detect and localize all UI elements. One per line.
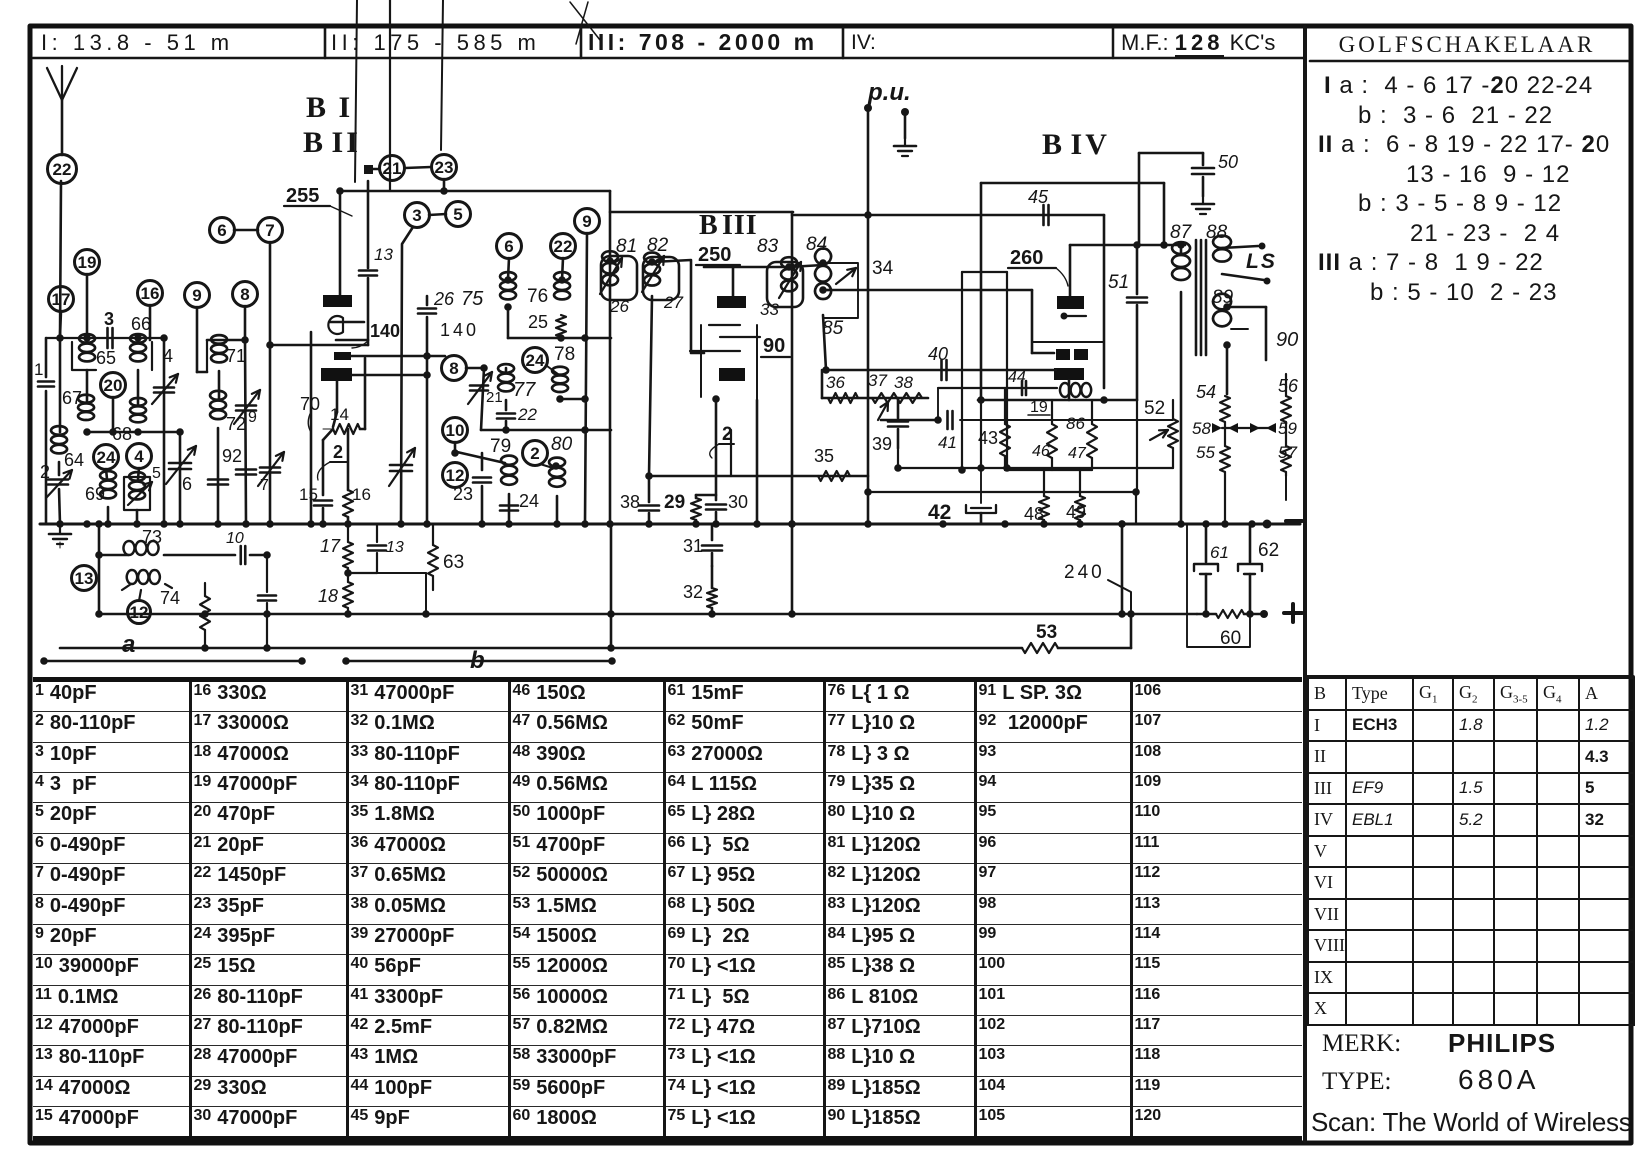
- screen box around padder coil: [124, 477, 150, 510]
- svg-text:6: 6: [504, 237, 513, 256]
- wire contact 17 down: [60, 311, 61, 336]
- svg-text:17: 17: [320, 536, 341, 556]
- wire x=1286 tail: [1285, 476, 1287, 500]
- capacitor 24 plain: [500, 504, 518, 507]
- svg-text:20: 20: [104, 376, 123, 395]
- coil 64 winding: [51, 426, 67, 453]
- wire IF rail y=212: [610, 211, 793, 214]
- svg-text:16: 16: [141, 284, 160, 303]
- wire x=60 down from node: [59, 338, 62, 432]
- svg-text:140: 140: [440, 320, 479, 340]
- wire x=99 riser: [98, 524, 101, 614]
- svg-text:74: 74: [160, 588, 180, 608]
- capacitor 26 branch: [426, 296, 429, 305]
- capacitor 41: [946, 411, 949, 429]
- wire link 21-23: [405, 167, 431, 168]
- resistor 60: [1216, 610, 1244, 618]
- svg-text:54: 54: [1196, 382, 1216, 402]
- wire x=981 to capacitor 42: [980, 468, 982, 503]
- secondary coil 88: [1213, 236, 1231, 262]
- wire contact 16 down: [149, 305, 152, 340]
- wire y=573 to riser: [377, 572, 426, 574]
- svg-text:38: 38: [620, 492, 640, 512]
- coil 66 winding: [130, 334, 146, 361]
- wire below capacitor 1 to bus: [45, 391, 48, 524]
- plus terminal: [1284, 604, 1302, 622]
- svg-text:9: 9: [582, 212, 591, 231]
- svg-text:69: 69: [85, 484, 105, 504]
- svg-text:62: 62: [1258, 540, 1279, 561]
- switch contact 2: [523, 441, 548, 466]
- svg-text:49: 49: [1066, 502, 1086, 522]
- svg-text:12: 12: [130, 603, 149, 622]
- wire resistor14 right leg: [360, 428, 365, 431]
- svg-text:58: 58: [1192, 419, 1211, 438]
- wire feedback branch x=962: [961, 272, 963, 470]
- wire contact 9 down: [196, 307, 199, 372]
- svg-text:80: 80: [551, 434, 573, 455]
- wire coil 75 to y=338: [507, 308, 510, 338]
- capacitor 7 trimmer: [236, 468, 256, 471]
- wire rail y=388: [938, 387, 1057, 389]
- resistor 25: [556, 315, 566, 337]
- primary coil 87: [1180, 245, 1183, 253]
- coil 75 winding: [500, 272, 516, 299]
- wire x=1164 drop: [1163, 183, 1166, 245]
- wire contact 8 down: [244, 306, 247, 339]
- svg-text:25: 25: [528, 312, 548, 332]
- connector marks 58-59: [1212, 423, 1238, 433]
- svg-text:1: 1: [34, 360, 43, 379]
- wire coil 74 to contact 12: [122, 584, 131, 590]
- trimmer box coil 84: [823, 263, 858, 318]
- wire top of coil 71: [207, 339, 245, 342]
- switch contact 17: [49, 287, 74, 312]
- wire contact 9b down: [585, 233, 587, 523]
- svg-text:78: 78: [554, 344, 575, 365]
- wire envelope right leg: [756, 400, 759, 524]
- capacitor 30: [706, 503, 726, 506]
- capacitor 50: [1192, 167, 1214, 170]
- svg-text:86: 86: [1066, 414, 1085, 433]
- wire x=1137 lower: [1136, 400, 1138, 492]
- coil 77 winding: [505, 368, 508, 372]
- wire coil 83-84 tops: [789, 265, 823, 267]
- svg-text:81: 81: [616, 236, 637, 257]
- svg-text:32: 32: [683, 582, 703, 602]
- resistor 52: [1172, 400, 1174, 419]
- resistor 18: [347, 568, 349, 582]
- svg-text:47: 47: [1068, 445, 1087, 462]
- wire feedback x=1007: [1006, 272, 1008, 468]
- svg-text:90: 90: [1276, 329, 1298, 351]
- arrow into 52: [1150, 430, 1168, 440]
- svg-text:23: 23: [453, 484, 473, 504]
- switch contact 5: [446, 202, 471, 227]
- svg-text:5: 5: [152, 465, 161, 482]
- wire anode feed B III: [732, 267, 735, 296]
- svg-text:90: 90: [763, 335, 785, 357]
- svg-text:79: 79: [490, 436, 511, 457]
- svg-text:14: 14: [330, 405, 349, 424]
- svg-text:7: 7: [260, 477, 269, 494]
- wire 58-59 link: [1222, 427, 1268, 429]
- svg-text:42: 42: [928, 501, 951, 524]
- switch contact 22: [48, 155, 77, 184]
- resistor 35: [818, 471, 850, 481]
- coil 79 winding: [501, 456, 517, 485]
- svg-text:46: 46: [1032, 443, 1050, 460]
- pointer 140: [352, 341, 368, 348]
- svg-text:45: 45: [1028, 187, 1049, 207]
- resistor 43: [1004, 388, 1006, 424]
- wire anode rail y=267: [704, 266, 792, 269]
- pointer 255 to wire: [330, 206, 352, 216]
- capacitor 23: [481, 453, 484, 470]
- scan crease line right: [441, 0, 443, 150]
- switch contact 10: [443, 418, 468, 443]
- wire x=219 between coils: [218, 371, 221, 399]
- svg-text:27: 27: [663, 293, 683, 312]
- coil 73: [99, 554, 128, 557]
- wire choke rail y=400: [978, 399, 1137, 402]
- field coil 89: [1213, 294, 1231, 327]
- wire link 6-7: [234, 229, 258, 232]
- capacitor 40: [940, 360, 943, 380]
- wiper line y=420: [881, 419, 938, 422]
- choke coil 19: [1060, 383, 1091, 397]
- wire contact 22 down to input node: [60, 181, 61, 338]
- svg-text:60: 60: [1220, 628, 1241, 649]
- tube B III envelope: [701, 325, 757, 400]
- wire feedback top: [962, 271, 1007, 273]
- wire x=1139 drop: [1138, 153, 1141, 245]
- wire grid drop x=1032: [1031, 290, 1034, 353]
- resistor 55: [1224, 422, 1226, 446]
- switch contact 13: [72, 566, 97, 591]
- dimension line b: [346, 660, 612, 663]
- variable capacitor 9 padder: [236, 404, 256, 407]
- wire speaker bottom: [1222, 274, 1264, 280]
- svg-text:67: 67: [62, 388, 82, 408]
- wire capacitor 10 right: [250, 554, 267, 557]
- svg-text:17: 17: [52, 290, 71, 309]
- wire left AVC stub: [59, 542, 61, 548]
- bus 2 supply rail: [99, 613, 1197, 616]
- switch contact 3: [405, 203, 430, 228]
- wire padder coil to bus: [136, 510, 139, 524]
- svg-text:19: 19: [1030, 399, 1048, 416]
- ground below capacitor 50: [1202, 177, 1205, 196]
- capacitor 45: [1042, 205, 1045, 225]
- wire resistor14 left leg down: [323, 429, 333, 440]
- right panel divider: [1303, 27, 1307, 1141]
- trimmer arrow coil 26: [600, 258, 622, 294]
- svg-text:44: 44: [1008, 369, 1026, 386]
- svg-text:7: 7: [265, 221, 274, 240]
- wire x=938 riser: [937, 388, 939, 420]
- svg-text:4: 4: [134, 447, 144, 466]
- p.u. terminal dot: [864, 104, 872, 112]
- wire x=731 cathode branch: [730, 430, 732, 476]
- svg-text:240: 240: [1064, 562, 1105, 583]
- header separator III/IV: [842, 28, 845, 58]
- svg-text:B IV: B IV: [1042, 128, 1110, 161]
- header separator IV/MF: [1112, 28, 1115, 58]
- pot arrow 37: [878, 402, 888, 420]
- tube B I/II grid dashes: [330, 321, 364, 324]
- wire rail y=430: [481, 429, 611, 432]
- coil 71 winding: [211, 335, 227, 362]
- tube B III anode bar: [717, 296, 746, 308]
- svg-text:73: 73: [142, 527, 162, 547]
- wire x=246 branch: [245, 339, 246, 524]
- coil 78 winding: [552, 367, 568, 392]
- wire x=138 between coils: [137, 370, 140, 405]
- wire p.u. line x=868: [867, 108, 870, 524]
- switch contact 4: [127, 444, 152, 469]
- capacitor 42: [966, 505, 996, 513]
- resistor 48: [1043, 470, 1045, 496]
- wire coil27 top feed: [652, 260, 704, 353]
- svg-text:76: 76: [527, 286, 548, 307]
- tube B I/II anode bar: [323, 295, 352, 307]
- svg-text:8: 8: [449, 359, 458, 378]
- wire coil 84 bottom down: [823, 315, 826, 370]
- coil 67 winding: [78, 395, 94, 420]
- svg-text:57: 57: [1278, 443, 1297, 462]
- switch contact 19: [75, 250, 100, 275]
- svg-text:38: 38: [894, 373, 913, 392]
- svg-text:61: 61: [1210, 543, 1229, 562]
- wire contact 8b stub: [466, 367, 484, 370]
- svg-text:10: 10: [446, 421, 465, 440]
- svg-text:33: 33: [760, 300, 779, 319]
- capacitor 12 bottom: [258, 594, 276, 597]
- resistor 49: [1079, 470, 1081, 496]
- capacitor 51: [1136, 245, 1139, 294]
- wire mid grid y=356: [351, 355, 445, 358]
- switch contact 24 second: [523, 348, 548, 373]
- svg-text:22: 22: [53, 160, 72, 179]
- p.u. ground: [904, 138, 906, 146]
- wire coil 89 bottom: [1223, 341, 1231, 349]
- wire contact 23 down: [443, 179, 446, 191]
- wire coil 73 to capacitor 10: [164, 554, 235, 557]
- svg-text:30: 30: [728, 492, 748, 512]
- switch contact 16: [138, 281, 163, 306]
- wire contact 12 stem: [139, 590, 141, 601]
- coil 27 IF can: [643, 257, 679, 300]
- wire grid rail y=290: [828, 289, 1032, 292]
- svg-text:55: 55: [1196, 443, 1215, 462]
- dimension line a: [44, 660, 302, 663]
- coil 68 winding: [130, 398, 146, 422]
- variable capacitor 6: [169, 462, 191, 465]
- wire x=981 lower: [980, 400, 982, 468]
- capacitor 50 branch: [1139, 152, 1203, 155]
- wire cathode x=311: [310, 332, 313, 524]
- p.u. second terminal: [901, 108, 909, 116]
- svg-text:3: 3: [412, 206, 421, 225]
- wire B IV cathode down: [1068, 380, 1071, 400]
- wire y=420 to resistor 52: [960, 419, 1173, 421]
- svg-text:LS: LS: [1246, 250, 1277, 273]
- variable capacitor on contact7 branch: [260, 466, 280, 469]
- capacitor 92: [208, 478, 228, 481]
- coil 65 left winding: [79, 334, 95, 361]
- wire bottom loop y=468: [898, 467, 1173, 469]
- wire B+ rail y=245: [1070, 244, 1185, 247]
- resistor 29: [695, 495, 698, 498]
- wire y=372 stub to coil 71: [197, 371, 207, 374]
- svg-text:87: 87: [1170, 222, 1193, 243]
- wire contact 20 down: [112, 397, 115, 432]
- coil 76 winding: [554, 272, 570, 299]
- resistor 37-38 pot: [872, 393, 922, 403]
- svg-text:26: 26: [433, 289, 455, 309]
- svg-text:41: 41: [938, 433, 957, 452]
- svg-text:18: 18: [318, 586, 338, 606]
- svg-text:24: 24: [97, 448, 116, 467]
- switch contact 8: [233, 282, 258, 307]
- chassis ground: [59, 526, 61, 534]
- resistor 16: [347, 429, 350, 490]
- svg-text:3: 3: [104, 309, 114, 329]
- switch contact 21: [380, 156, 405, 181]
- resistor 46: [1051, 400, 1053, 424]
- svg-text:64: 64: [64, 450, 84, 470]
- svg-text:255: 255: [286, 185, 319, 207]
- svg-text:B III: B III: [699, 210, 758, 241]
- transformer core: [1195, 240, 1198, 355]
- svg-text:a: a: [122, 631, 135, 658]
- capacitor 39: [888, 420, 908, 423]
- variable capacitor 9 oscillator: [390, 464, 412, 467]
- wire x=1136 drop to bus: [1135, 492, 1137, 524]
- switch contact 9: [185, 283, 210, 308]
- filter capacitor 61: [1205, 524, 1208, 562]
- svg-text:13: 13: [374, 245, 393, 264]
- svg-text:29: 29: [664, 492, 685, 513]
- svg-text:2: 2: [40, 462, 50, 482]
- wire left branch x=46: [45, 338, 48, 377]
- wire x=267 down: [266, 555, 268, 592]
- resistor 17: [347, 524, 349, 542]
- svg-text:250: 250: [698, 244, 731, 266]
- svg-text:10: 10: [226, 530, 244, 547]
- trimmer arrow coil 83: [779, 262, 801, 298]
- tube B I/II hexode anode bar: [321, 368, 352, 381]
- resistor 36: [828, 393, 858, 403]
- wire hexode anode to y=375 rail: [352, 374, 427, 377]
- svg-text:83: 83: [757, 236, 779, 257]
- wire contact 6b to coil 75: [508, 258, 509, 279]
- wire speaker top: [1222, 246, 1258, 248]
- wire triode grid y=345: [270, 344, 368, 347]
- coil 80 winding: [549, 458, 565, 487]
- wire contact 24 to coil 69: [106, 469, 107, 479]
- wire oscillator top rail y=191: [340, 190, 610, 193]
- wire bus2 to resistor 60: [1197, 613, 1216, 616]
- wire anode feed B IV: [1069, 245, 1072, 296]
- wire AVC rail y=476: [649, 475, 868, 478]
- wire y=470 join: [1005, 469, 1092, 471]
- coil 26 IF winding: [602, 251, 618, 285]
- svg-text:2: 2: [530, 444, 539, 463]
- wire x=793 screen feed: [791, 212, 794, 614]
- svg-text:39: 39: [872, 434, 892, 454]
- beam plate line: [1032, 341, 1104, 343]
- svg-text:12: 12: [446, 466, 465, 485]
- svg-text:63: 63: [443, 552, 464, 573]
- wire rail y=338: [508, 337, 611, 340]
- svg-text:13: 13: [386, 539, 404, 556]
- svg-text:13: 13: [75, 569, 94, 588]
- wire contact 19 down: [86, 274, 89, 338]
- wire x=1104 drop: [1103, 215, 1106, 388]
- svg-text:56: 56: [1278, 376, 1299, 396]
- wire cap39 leg: [897, 448, 899, 468]
- tube B III screen bar: [719, 368, 745, 381]
- svg-text:35: 35: [814, 446, 834, 466]
- wire grid to tube: [1032, 352, 1054, 355]
- wire coil64 to bus: [58, 462, 61, 475]
- wire tube bottom to resistor 14: [336, 381, 339, 412]
- svg-text:16: 16: [352, 485, 371, 504]
- golfschakelaar title underline: [1310, 60, 1628, 63]
- wire x=611 riser: [610, 524, 613, 648]
- coil 84 winding: [815, 248, 831, 299]
- variable capacitor 4 trimmer: [154, 386, 174, 389]
- node square at contact 21: [364, 165, 373, 174]
- variable capacitor 21: [470, 384, 488, 387]
- pointer 2 cathode: [710, 444, 719, 458]
- switch contact 7: [258, 218, 283, 243]
- svg-text:31: 31: [683, 536, 703, 556]
- wire 8b branch down: [481, 368, 484, 430]
- tube B I/II cathode: [328, 316, 343, 334]
- wire link 3-5: [429, 214, 446, 215]
- coil 27 IF winding: [644, 252, 660, 285]
- switch contact 23: [432, 155, 457, 180]
- svg-text:59: 59: [1278, 419, 1297, 438]
- svg-text:53: 53: [1036, 622, 1057, 643]
- svg-text:22: 22: [517, 405, 537, 424]
- wire x=164 trimmer branch: [163, 338, 166, 524]
- wire x=1122 riser: [1121, 524, 1124, 614]
- coil 83 winding: [781, 257, 797, 291]
- wire contact 22b to coil 76: [562, 258, 563, 280]
- minus terminal: [1263, 520, 1272, 529]
- pointer 24 to coil 78: [547, 366, 558, 374]
- switch contact 6 second: [497, 234, 522, 259]
- header separator I/II: [324, 28, 327, 58]
- tube B I/II injection grid bar: [334, 352, 351, 360]
- svg-text:43: 43: [978, 428, 998, 448]
- variable capacitor 2: [48, 478, 68, 481]
- scan stroke on header: [570, 2, 600, 40]
- screen bracket of coil 65: [72, 342, 96, 370]
- switch contact 12 bottom: [128, 601, 151, 624]
- wire y=492 return: [868, 491, 1136, 493]
- svg-text:6: 6: [217, 221, 226, 240]
- capacitor 1: [38, 380, 54, 383]
- wire x=1266 drop: [1265, 307, 1268, 360]
- switch contact 20: [101, 373, 126, 398]
- switch contact 22 second: [551, 234, 576, 259]
- wire x=180 branch: [179, 432, 182, 524]
